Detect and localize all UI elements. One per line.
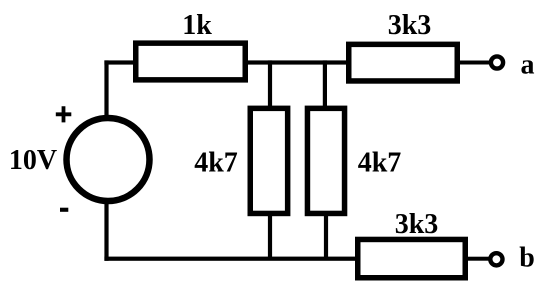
voltage source V (10V) circle <box>67 118 150 201</box>
svg-text:a: a <box>521 50 535 81</box>
svg-text:b: b <box>519 243 535 274</box>
svg-text:3k3: 3k3 <box>395 209 439 240</box>
resistor R5 3k3 (bottom) <box>358 239 466 277</box>
wire: right 4k7 down to bottom rail <box>324 216 328 260</box>
svg-text:1k: 1k <box>182 10 212 41</box>
resistor R4 3k3 (top) <box>349 44 458 81</box>
wire: source positive terminal up to top rail <box>104 60 108 118</box>
svg-text:4k7: 4k7 <box>194 148 238 179</box>
wire: bottom rail horizontal <box>104 257 355 261</box>
resistor R2 4k7 (left vertical) <box>250 108 287 213</box>
wire: top 3k3 to terminal a <box>460 61 489 65</box>
svg-text:10V: 10V <box>9 145 57 176</box>
resistor R3 4k7 (right vertical) <box>307 108 344 213</box>
wire: source negative terminal down to bottom rail <box>104 201 108 261</box>
terminal a (open circle) <box>491 56 503 68</box>
wire: top-left horizontal to 1k resistor <box>104 60 134 64</box>
terminal b (open circle) <box>490 253 502 265</box>
resistor R1 1k (top) <box>136 43 246 80</box>
voltage source - polarity mark <box>60 208 68 212</box>
wire: junction drop to left 4k7 <box>268 60 272 107</box>
wire: junction drop to right 4k7 <box>323 60 327 107</box>
voltage source + polarity mark <box>56 106 72 122</box>
wire: left 4k7 down to bottom rail <box>268 216 272 260</box>
svg-text:4k7: 4k7 <box>358 148 402 179</box>
svg-text:3k3: 3k3 <box>388 10 432 41</box>
wire: bottom 3k3 to terminal b <box>468 257 489 261</box>
wire: 1k to top 3k3 horizontal segment <box>248 60 346 64</box>
